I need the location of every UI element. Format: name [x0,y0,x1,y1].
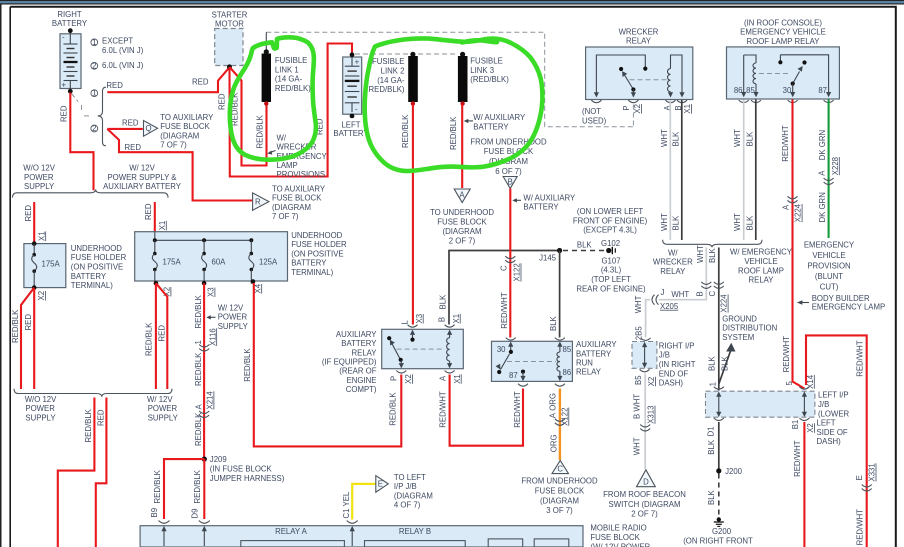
svg-text:5: 5 [785,381,794,386]
brace W/O / W 12V power supply (top) [13,190,169,198]
pin L arrow [410,330,415,342]
svg-text:C: C [708,291,717,297]
connector arcs run relay [506,338,516,341]
svg-text:A: A [549,412,558,418]
pin arrows into box [164,529,352,546]
switch arm [496,354,510,374]
svg-text:SIDE OF: SIDE OF [817,428,848,437]
svg-text:RED: RED [122,118,139,127]
svg-text:LINK 3: LINK 3 [470,66,494,75]
svg-text:X1: X1 [37,231,46,241]
svg-text:A: A [818,170,827,176]
svg-text:WRECKER: WRECKER [653,258,693,267]
svg-text:X2: X2 [37,291,46,301]
svg-text:BLK: BLK [577,240,593,249]
flag triangle Q to auxiliary fuse block [144,121,158,137]
fusible link FL1 [262,32,271,106]
double arrow pin 1 [716,392,721,418]
connector X331 [862,485,872,492]
svg-text:RED/WHT: RED/WHT [793,440,802,477]
svg-text:(DIAGRAM: (DIAGRAM [443,227,482,236]
wire option2 branch to triangle R [107,129,252,201]
svg-text:WHT: WHT [733,213,742,231]
svg-text:WHT: WHT [696,245,705,263]
svg-text:86: 86 [563,368,572,377]
svg-text:FUSIBLE: FUSIBLE [470,57,503,66]
green marker loop around link 1 [230,37,316,159]
small fuse box 1 [488,539,523,547]
wire option1 RED to starter [107,68,229,93]
svg-text:UNDERHOOD: UNDERHOOD [291,231,342,240]
svg-text:RED/WHT: RED/WHT [781,125,790,162]
svg-text:175A: 175A [42,260,61,269]
svg-text:FROM ROOF BEACON: FROM ROOF BEACON [603,490,686,499]
note w/ 12v power supply arrow [210,316,216,318]
svg-text:J/B: J/B [818,400,829,409]
svg-text:JUMPER HARNESS): JUMPER HARNESS) [210,474,285,483]
svg-text:W/: W/ [668,248,678,257]
mobile radio fuse block box [140,526,583,547]
svg-text:BLK: BLK [708,355,717,371]
svg-text:RED: RED [192,78,209,87]
battery B1 right battery [60,28,81,93]
svg-text:(IN ROOF CONSOLE): (IN ROOF CONSOLE) [744,18,822,27]
svg-text:LINK 2: LINK 2 [381,67,405,76]
internal bus [155,232,252,241]
coil [447,330,453,369]
connector arcs above mobile fuse block [159,521,170,524]
svg-text:6 OF 7): 6 OF 7) [495,167,522,176]
note circle 2 6.0L [91,62,98,69]
svg-text:B5: B5 [634,375,643,385]
svg-text:X3: X3 [207,287,216,297]
svg-text:VEHICLE: VEHICLE [812,251,845,260]
svg-text:X1: X1 [158,221,167,231]
svg-text:X3: X3 [415,314,424,324]
svg-text:EMERGENCY: EMERGENCY [804,241,855,250]
svg-text:B: B [508,178,513,187]
svg-text:7 OF 7): 7 OF 7) [160,141,187,150]
wire link2 to aux battery relay pin L [412,105,414,325]
svg-text:I/P J/B: I/P J/B [394,482,417,491]
wire WHT X205 to right I/P J/B [646,300,650,338]
wire BLK from brace to left I/P J/B pin 1 [718,248,720,391]
svg-text:RELAY: RELAY [576,368,602,377]
wire WHT roof 86 down to brace [743,100,745,241]
svg-text:G102: G102 [601,239,620,248]
svg-text:P: P [622,105,631,110]
small fuse box 2 [534,539,569,547]
wire WHT wrecker A down to brace [669,100,671,240]
dashed link [759,73,790,75]
svg-text:RED/BLK: RED/BLK [194,352,203,386]
svg-text:GROUND: GROUND [722,314,757,323]
svg-text:DK GRN: DK GRN [818,130,827,160]
svg-text:A: A [459,191,465,200]
connector X205 [652,295,659,305]
svg-text:(DIAGRAM: (DIAGRAM [272,203,311,212]
connector arc below left I/P pin X2 [799,418,809,421]
svg-text:6.0L (VIN J): 6.0L (VIN J) [102,61,144,70]
svg-text:FUSE BLOCK: FUSE BLOCK [590,533,640,542]
brace grouping options 1 and 2 [98,87,106,146]
switch arm [619,67,636,98]
underhood fuse holder (small, left) [24,244,66,288]
svg-text:RED: RED [144,203,153,220]
top toolbar strip [0,0,904,4]
feed wire RED/BLK to bottom left [58,398,95,547]
wire starter to fusible link1 (inner path) [230,67,267,166]
svg-text:DISTRIBUTION: DISTRIBUTION [722,324,777,333]
svg-text:(NOT: (NOT [582,107,601,116]
svg-text:RUN: RUN [576,359,593,368]
connector arcs on WHT [701,282,711,289]
relay K2 roof lamp relay box [727,47,840,99]
wire pin X4 to aux relay pin P [254,283,401,446]
svg-text:VEHICLE: VEHICLE [744,257,777,266]
svg-text:POWER: POWER [218,313,248,322]
svg-text:X1: X1 [453,374,462,384]
pin 87 [520,370,525,382]
connector X313 [640,425,650,432]
svg-text:WHT: WHT [634,295,643,313]
svg-text:WRECKER: WRECKER [619,27,659,36]
svg-text:B WHT: B WHT [632,394,641,419]
svg-text:REAR OF ENGINE): REAR OF ENGINE) [576,284,646,293]
svg-text:EXCEPT: EXCEPT [102,37,133,46]
note w/ auxiliary battery (link3) [468,120,474,122]
svg-text:(REAR OF: (REAR OF [339,367,376,376]
starter motor box [215,29,243,66]
svg-text:DASH): DASH) [659,379,684,388]
connector X214 [199,411,209,418]
dashed BLK to G102 [563,250,606,252]
svg-text:BLK: BLK [549,315,558,331]
svg-text:FUSE HOLDER: FUSE HOLDER [291,240,347,249]
svg-text:(BLUNT: (BLUNT [815,272,843,281]
svg-text:(RED/BLK): (RED/BLK) [470,75,509,84]
svg-text:PROVISIONS: PROVISIONS [277,170,326,179]
wire option2 RED to triangle Q [107,128,143,130]
svg-text:DK GRN: DK GRN [818,192,827,222]
svg-text:B: B [437,317,446,322]
svg-text:2 OF 7): 2 OF 7) [631,510,658,519]
svg-text:W/ AUXILIARY: W/ AUXILIARY [523,193,576,202]
coil [557,342,563,382]
pin 30 arrow [508,342,513,355]
svg-text:6.0L (VIN J): 6.0L (VIN J) [102,46,144,55]
svg-text:X2: X2 [806,423,815,433]
connector arc above left I/P pin 5 [799,387,809,390]
svg-text:BLK: BLK [671,215,680,231]
wire WHT from brace to X205 [659,248,707,300]
svg-text:+: + [355,58,360,67]
wire to wide fuse holder X1 [154,202,156,237]
wire small holder X2 RED [33,289,35,389]
svg-text:RIGHT I/P: RIGHT I/P [659,341,695,350]
relay B inner box [365,541,466,547]
svg-text:J/B: J/B [659,351,670,360]
svg-text:-: - [355,105,358,114]
svg-text:RED/WHT: RED/WHT [500,292,509,329]
svg-text:W/ 12V: W/ 12V [129,164,155,173]
svg-text:1: 1 [709,382,718,386]
svg-text:AUXILIARY: AUXILIARY [336,330,377,339]
svg-text:D1: D1 [706,426,715,436]
svg-text:X224: X224 [720,294,729,313]
junction J200 [716,468,721,473]
svg-text:TERMINAL): TERMINAL) [71,281,113,290]
svg-text:BLK: BLK [671,131,680,147]
connector X122 (org) [555,419,565,426]
svg-text:A: A [439,375,448,381]
wire link3 to triangle A [461,105,463,189]
wire BLK to J200 [718,422,720,471]
svg-text:PROVISION: PROVISION [807,262,850,271]
svg-text:BATTERY: BATTERY [473,123,509,132]
switch arm [387,336,404,368]
svg-text:P: P [389,376,398,381]
connector X224 arcs on RED/WHT [788,196,798,203]
svg-text:MOBILE RADIO: MOBILE RADIO [590,524,646,533]
flag triangle R to auxiliary fuse block [253,193,269,210]
wire RED/WHT roof 30 down to X14 pin 5 [793,100,805,389]
svg-text:B1: B1 [791,420,800,430]
svg-text:SWITCH (DIAGRAM: SWITCH (DIAGRAM [609,500,681,509]
connector X116 [199,345,209,352]
svg-text:W/ 12V: W/ 12V [218,303,244,312]
svg-text:POWER SUPPLY &: POWER SUPPLY & [107,173,177,182]
svg-text:3 OF 7): 3 OF 7) [546,506,573,515]
svg-text:1: 1 [92,38,96,47]
svg-text:X14: X14 [806,374,815,389]
connector arcs below wrecker pins [591,100,601,103]
svg-text:BATTERY: BATTERY [333,129,369,138]
svg-text:(W/ 12V POWER: (W/ 12V POWER [590,543,650,547]
svg-text:BATTERY: BATTERY [341,339,377,348]
wire X3 RED/BLK down to J209 [203,283,205,459]
svg-text:BATTERY: BATTERY [52,19,88,28]
svg-text:DASH): DASH) [817,437,842,446]
svg-text:ENGINE: ENGINE [347,376,377,385]
svg-text:(IF EQUIPPED): (IF EQUIPPED) [322,358,377,367]
svg-text:RED/WHT: RED/WHT [439,391,448,428]
svg-text:(DIAGRAM: (DIAGRAM [540,496,579,505]
auxiliary battery run relay box [492,341,573,381]
svg-text:USED): USED) [582,117,607,126]
fuse 175A [32,241,37,290]
svg-text:FROM UNDERHOOD: FROM UNDERHOOD [470,137,547,146]
svg-text:(14 GA-: (14 GA- [275,75,303,84]
svg-text:RED/BLK: RED/BLK [194,294,203,328]
dashed BLK to ground [718,474,720,517]
connector X228 arcs [824,178,834,185]
dashed link tops to left battery [355,53,457,55]
svg-text:SUPPLY: SUPPLY [148,413,179,422]
note w/ auxiliary battery (run relay) [516,199,521,201]
green marker loop around links 2 and 3 [365,38,543,171]
svg-text:CUT): CUT) [820,283,839,292]
svg-text:FUSE BLOCK: FUSE BLOCK [437,218,487,227]
svg-text:X2: X2 [633,104,642,114]
svg-text:TO AUXILIARY: TO AUXILIARY [272,185,326,194]
svg-text:60A: 60A [212,258,227,267]
svg-text:LEFT: LEFT [817,419,836,428]
svg-text:FUSIBLE: FUSIBLE [372,57,405,66]
flag triangle A to underhood fuse block [454,189,470,203]
svg-text:C1 YEL: C1 YEL [342,491,351,518]
svg-text:2: 2 [92,124,96,133]
wire BLK J145 down to run relay pin 85 [559,251,561,338]
svg-text:LEFT I/P: LEFT I/P [818,391,849,400]
svg-text:FUSE BLOCK: FUSE BLOCK [272,194,322,203]
svg-text:BLK: BLK [439,294,448,310]
wire J209 branch left B9 [164,459,204,519]
svg-text:C: C [499,265,508,271]
svg-text:RED: RED [24,314,33,331]
pin dots X2 X3 X4 [154,281,159,286]
svg-text:85: 85 [746,86,755,95]
svg-text:2 OF 7): 2 OF 7) [449,237,476,246]
wire ORG run relay 86 to triangle C [559,389,561,461]
flag triangle E to left I/P J/B [376,476,389,493]
svg-text:END OF: END OF [659,369,689,378]
svg-text:W/ 12V: W/ 12V [147,395,173,404]
svg-text:7 OF 7): 7 OF 7) [272,212,299,221]
svg-text:RED/WHT: RED/WHT [782,336,791,373]
junction J145 [557,248,562,253]
svg-text:175A: 175A [163,258,182,267]
svg-text:ORG: ORG [549,434,558,452]
svg-text:X331: X331 [868,463,877,481]
svg-text:1: 1 [92,89,96,98]
svg-text:RED/BLK: RED/BLK [389,392,398,426]
connector arcs on BLK [714,282,724,289]
svg-text:RELAY: RELAY [660,267,686,276]
svg-text:RELAY A: RELAY A [275,527,308,536]
underhood fuse holder (wide, on positive battery terminal) [135,232,288,281]
svg-text:W/ EMERGENCY: W/ EMERGENCY [730,248,793,257]
wire wide X2 RED diagonal [156,283,167,389]
wire WHT to triangle D [644,374,646,470]
svg-text:FROM UNDERHOOD: FROM UNDERHOOD [521,477,598,486]
connector arc below pin D1 [714,418,724,421]
svg-text:A: A [781,204,790,210]
wire BLK wrecker B down to brace [681,100,683,240]
svg-text:X214: X214 [206,391,215,410]
svg-text:(ON LOWER LEFT: (ON LOWER LEFT [577,207,644,216]
svg-text:RED/BLK: RED/BLK [11,309,20,343]
starter motor terminal dot [227,64,232,69]
svg-text:2: 2 [92,61,96,70]
fusible link FL2 [408,52,418,106]
coil branch [741,55,759,97]
note circle 1 EXCEPT 6.0L [91,39,98,46]
svg-text:EMERGENCY VEHICLE: EMERGENCY VEHICLE [740,28,826,37]
svg-text:FRONT OF ENGINE): FRONT OF ENGINE) [573,216,648,225]
svg-text:125A: 125A [259,258,278,267]
svg-text:W/ AUXILIARY: W/ AUXILIARY [473,113,526,122]
svg-text:RED/BLK): RED/BLK) [369,85,405,94]
wire starter to left battery (outer path) [230,44,353,177]
svg-text:87: 87 [818,86,827,95]
svg-text:RED: RED [157,325,166,342]
svg-text:X2: X2 [647,377,656,387]
svg-text:RED/BLK: RED/BLK [194,412,203,446]
svg-text:RED: RED [60,105,69,122]
svg-text:E: E [378,480,383,489]
svg-text:MOTOR: MOTOR [215,20,244,29]
svg-text:E: E [855,475,864,480]
option circle 2 [91,125,98,132]
svg-text:TO UNDERHOOD: TO UNDERHOOD [430,208,494,217]
svg-text:WHT: WHT [733,129,742,147]
svg-text:(DIAGRAM: (DIAGRAM [394,491,433,500]
svg-text:(4.3L): (4.3L) [601,266,622,275]
svg-text:SYSTEM: SYSTEM [722,333,754,342]
svg-text:RIGHT: RIGHT [57,10,81,19]
svg-text:X116: X116 [208,328,217,346]
svg-text:BATTERY: BATTERY [523,203,559,212]
svg-text:(DIAGRAM: (DIAGRAM [160,131,199,140]
svg-text:W/O 12V: W/O 12V [25,395,57,404]
wire small holder X2 RED/BLK [21,288,34,389]
svg-text:(TOP LEFT: (TOP LEFT [591,275,631,284]
svg-text:WHT: WHT [632,437,641,455]
svg-text:G107: G107 [601,256,620,265]
svg-text:W/: W/ [277,133,287,142]
svg-text:SUPPLY: SUPPLY [25,413,56,422]
flag triangle D from roof beacon switch [637,470,656,487]
svg-text:AUXILIARY: AUXILIARY [576,340,617,349]
svg-text:X228: X228 [831,157,840,175]
connector arcs at aux relay pins [408,325,418,328]
svg-text:RED: RED [106,81,123,90]
svg-text:BLK: BLK [720,355,729,371]
fuse 175A [152,240,157,283]
wire BLK roof 85 down to brace [755,100,757,241]
svg-text:FUSE HOLDER: FUSE HOLDER [71,253,127,262]
svg-text:RED: RED [24,205,33,222]
wire wide X2 RED/BLK [155,283,157,389]
svg-text:RED/BLK: RED/BLK [193,469,202,503]
svg-text:X122: X122 [560,408,569,426]
svg-text:LINK 1: LINK 1 [275,65,299,74]
svg-text:30: 30 [497,345,506,354]
svg-text:J200: J200 [725,467,743,476]
svg-text:POWER: POWER [24,173,54,182]
svg-text:(ON POSITIVE: (ON POSITIVE [291,249,343,258]
feed wire RED to bottom left [96,398,107,547]
right I/P J/B box [632,342,657,369]
svg-text:POWER: POWER [25,404,55,413]
svg-text:RED/WHT: RED/WHT [513,391,522,428]
fuse 125A [249,240,254,283]
svg-text:AUXILIARY BATTERY: AUXILIARY BATTERY [103,182,182,191]
dashed provision path from links to wrecker relay pin P [266,32,633,127]
wire RED/WHT aux relay pin A to run relay 87 [450,375,523,446]
wire RED/WHT branch to right edge [806,335,867,547]
svg-text:BATTERY: BATTERY [71,272,107,281]
svg-text:RED/WHT: RED/WHT [856,340,865,377]
wire yellow C1 to triangle E [352,484,375,520]
svg-text:X313: X313 [647,406,656,424]
fusible link FL3 [458,52,468,106]
svg-text:RELAY B: RELAY B [399,527,431,536]
svg-text:30: 30 [783,86,792,95]
svg-text:W/O 12V: W/O 12V [23,164,55,173]
double arrow pin 5 [802,392,807,418]
